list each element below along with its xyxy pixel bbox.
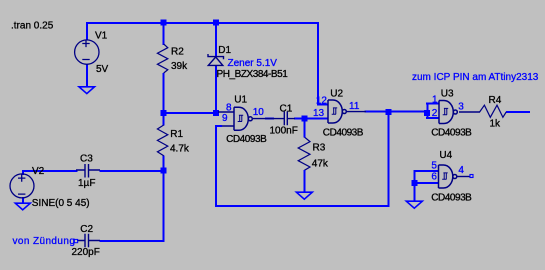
svg-text:100nF: 100nF: [270, 126, 298, 137]
svg-text:CD4093B: CD4093B: [226, 134, 267, 145]
svg-text:U4: U4: [439, 150, 452, 161]
junction node D1 bottom/pin8: [213, 110, 219, 116]
ground V2: [15, 203, 30, 210]
wire V2 to C3: [22, 170, 78, 172]
wire U4 input vertical to ground: [413, 170, 415, 202]
ground V1: [79, 87, 95, 94]
wire C3 to R1 junction: [100, 170, 165, 172]
svg-text:13: 13: [313, 108, 325, 119]
svg-text:R4: R4: [489, 95, 502, 106]
wire C1 to U2 pin13: [294, 118, 328, 120]
ground R3: [296, 192, 312, 199]
capacitor C2: [77, 234, 100, 248]
capacitor C3: [76, 164, 100, 178]
svg-text:C3: C3: [80, 154, 93, 165]
resistor R4: [480, 105, 507, 117]
svg-text:47k: 47k: [312, 158, 329, 169]
svg-text:12: 12: [316, 95, 328, 106]
wire right feedback vertical: [388, 112, 390, 207]
wire C2 to corner: [100, 240, 165, 242]
capacitor C1: [253, 111, 295, 125]
wire R3 top lead: [304, 118, 306, 138]
junction node U3 input: [424, 110, 430, 116]
wire bottom feedback rail: [215, 205, 390, 207]
resistor R2: [157, 44, 167, 73]
svg-text:R3: R3: [313, 143, 326, 154]
wire U2 pin 12 horizontal: [317, 104, 328, 106]
wire U4 output lead: [457, 176, 470, 178]
wire pin8 net horizontal R2/D1/U1: [163, 112, 218, 114]
wire U2 output to U3 junction: [365, 111, 428, 113]
svg-text:8: 8: [226, 103, 232, 114]
wire D1 top lead: [215, 22, 217, 57]
svg-text:CD4093B: CD4093B: [431, 192, 472, 203]
junction node U2 out feedback: [386, 109, 392, 115]
junction node D1 top: [213, 20, 219, 26]
wire U1 pin9 vertical feedback: [215, 125, 217, 207]
svg-text:.tran 0.25: .tran 0.25: [11, 21, 54, 32]
svg-text:1k: 1k: [490, 119, 502, 130]
wire D1 bottom lead: [215, 65, 217, 114]
junction node R1/C3: [161, 168, 167, 174]
svg-text:R1: R1: [170, 129, 183, 140]
node U4 output terminal: [470, 175, 473, 178]
wire R1 bottom lead down to C2 corner: [163, 156, 165, 243]
svg-text:11: 11: [349, 101, 360, 112]
svg-text:C2: C2: [80, 224, 93, 235]
node von Zündung terminal: [74, 239, 77, 242]
resistor R1: [157, 125, 167, 156]
svg-text:CD4093B: CD4093B: [431, 128, 472, 139]
wire R4 left lead: [459, 111, 480, 113]
svg-text:V1: V1: [95, 31, 108, 42]
svg-text:39k: 39k: [171, 61, 188, 72]
svg-text:SINE(0 5 45): SINE(0 5 45): [32, 198, 90, 209]
svg-text:4.7k: 4.7k: [170, 144, 190, 155]
wire U3 pin1 horizontal: [426, 102, 439, 104]
svg-text:10: 10: [253, 107, 265, 118]
svg-text:C1: C1: [280, 104, 293, 115]
junction node R2/R1/pin8: [161, 110, 167, 116]
wire R2 bottom lead: [163, 73, 165, 114]
op-amp U3 nand gate CD4093B: [439, 101, 457, 124]
wire U1 pin9 short stub: [215, 125, 222, 127]
zener diode D1: [208, 54, 224, 65]
wire R4 output: [506, 111, 530, 113]
svg-text:von Zündung: von Zündung: [13, 236, 76, 247]
svg-text:220pF: 220pF: [72, 247, 100, 258]
svg-text:PH_BZX384-B51: PH_BZX384-B51: [217, 69, 289, 80]
svg-text:U2: U2: [330, 89, 343, 100]
wire V1 top stub: [86, 22, 88, 40]
svg-text:1µF: 1µF: [78, 178, 95, 189]
junction node C1/R3/pin13: [302, 116, 308, 122]
junction node R2 top: [161, 20, 167, 26]
svg-text:2: 2: [432, 108, 438, 119]
wire right vertical to U2 pin 12: [317, 22, 319, 106]
junction node U4 input: [411, 180, 417, 186]
wire V1 bottom to ground: [86, 64, 88, 87]
svg-text:3: 3: [458, 102, 464, 113]
wire U3 input vertical: [427, 102, 429, 119]
svg-text:1: 1: [432, 95, 438, 106]
svg-text:5V: 5V: [96, 64, 109, 75]
svg-text:CD4093B: CD4093B: [323, 127, 364, 138]
svg-text:9: 9: [222, 113, 228, 124]
wire R1 top lead: [163, 112, 165, 126]
voltage source V2: [10, 174, 34, 198]
op-amp U1 nand gate CD4093B: [218, 107, 252, 130]
voltage source V1: [75, 40, 99, 64]
svg-text:U1: U1: [234, 95, 247, 106]
wire R2 top lead: [163, 22, 165, 45]
svg-text:U3: U3: [441, 89, 454, 100]
wire R3 bottom lead: [304, 170, 306, 193]
svg-text:R2: R2: [171, 47, 184, 58]
ground U4: [406, 201, 422, 208]
svg-text:6: 6: [431, 172, 437, 183]
op-amp U4 nand gate CD4093B: [439, 165, 470, 188]
wire V2 bottom stub: [22, 197, 24, 204]
wire top rail V1 to U2 column: [86, 22, 319, 24]
svg-text:D1: D1: [218, 45, 231, 56]
svg-text:Zener 5.1V: Zener 5.1V: [228, 58, 278, 69]
op-amp U2 nand gate CD4093B: [328, 100, 366, 123]
resistor R3: [298, 137, 310, 170]
wire U1 output to C1: [265, 118, 274, 120]
svg-text:zum ICP PIN am ATtiny2313: zum ICP PIN am ATtiny2313: [412, 72, 539, 83]
svg-text:V2: V2: [32, 166, 45, 177]
wire U3 pin2 horizontal: [426, 117, 439, 119]
wire U4 pin6 horizontal: [413, 182, 438, 184]
svg-text:5: 5: [431, 160, 437, 171]
svg-text:4: 4: [458, 165, 464, 176]
wire V2 top stub: [22, 170, 24, 175]
wire U4 pin5 horizontal: [413, 170, 438, 172]
